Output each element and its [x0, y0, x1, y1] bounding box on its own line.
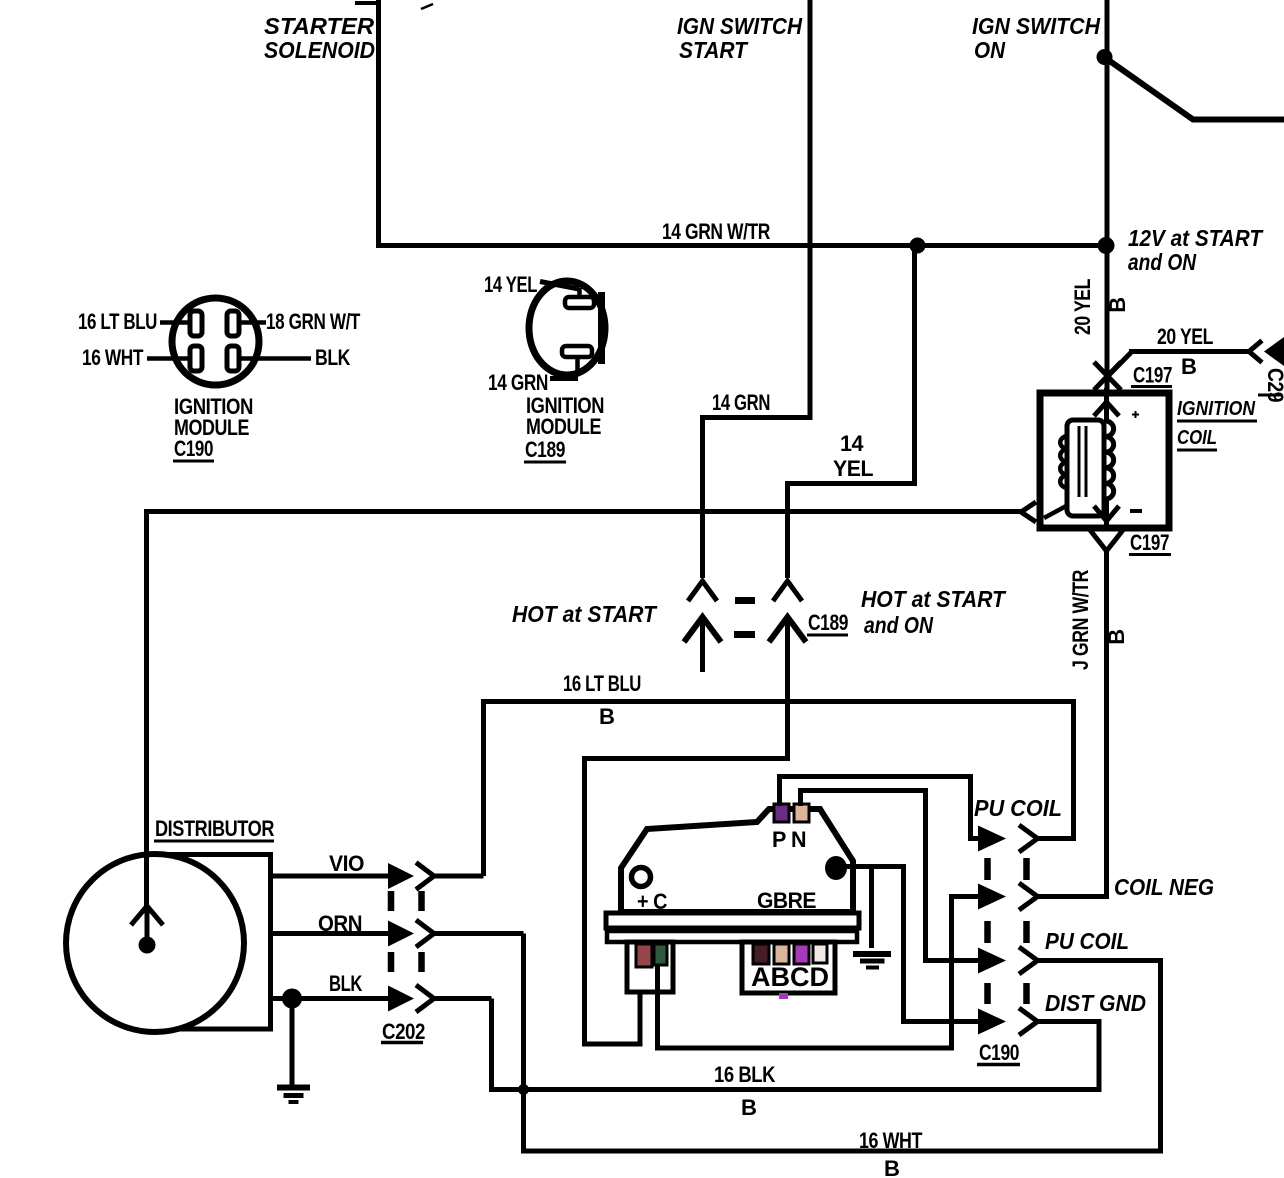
- svg-text:and ON: and ON: [864, 612, 933, 638]
- coil - mark: [1130, 509, 1142, 513]
- pin slot top-left: [190, 311, 202, 336]
- pin slot top: [565, 297, 594, 308]
- module pin A: [753, 944, 769, 964]
- wire: 16 BLK run pair4 to C202 ORN: [492, 999, 1100, 1090]
- connector C202 BLK filled arrow: [388, 986, 414, 1012]
- connector filled arrow at right edge: [1264, 337, 1284, 366]
- svg-text:HOT at START: HOT at START: [861, 586, 1007, 612]
- pin slot bottom-right: [227, 346, 239, 371]
- svg-text:C29: C29: [1263, 368, 1284, 402]
- svg-text:VIO: VIO: [329, 851, 364, 876]
- module pin B: [774, 944, 789, 964]
- node: ign switch on junction: [1097, 49, 1113, 65]
- svg-text:16 WHT: 16 WHT: [859, 1128, 923, 1153]
- module mounting hole: [632, 868, 651, 887]
- svg-text:B: B: [1181, 354, 1196, 379]
- wire: ORN exit: [434, 931, 524, 936]
- svg-text:C189: C189: [808, 610, 848, 635]
- node: junction at 14 YEL tap: [910, 238, 926, 254]
- svg-text:MODULE: MODULE: [526, 414, 601, 439]
- svg-text:C190: C190: [174, 436, 213, 461]
- connector C189 inline: right fork: [773, 581, 802, 601]
- svg-text:C189: C189: [525, 437, 565, 462]
- svg-text:B: B: [884, 1156, 899, 1178]
- wire: VIO from distributor: [268, 874, 388, 879]
- svg-text:YEL: YEL: [833, 456, 873, 481]
- wire: BLK exit: [434, 996, 492, 1001]
- svg-text:IGN SWITCH: IGN SWITCH: [972, 13, 1100, 39]
- svg-text:BLK: BLK: [315, 345, 350, 370]
- svg-text:SOLENOID: SOLENOID: [264, 37, 375, 63]
- connector C190 pair3 chevron: [1019, 947, 1038, 974]
- wire: module ground to DIST GND pair4: [836, 867, 978, 1022]
- module pin + (red): [636, 944, 652, 967]
- svg-text:20 YEL: 20 YEL: [1157, 324, 1213, 349]
- module body: [621, 809, 853, 912]
- svg-text:B: B: [1105, 297, 1130, 312]
- svg-text:14 GRN W/TR: 14 GRN W/TR: [662, 219, 770, 244]
- pin slot bottom: [562, 346, 592, 357]
- svg-text:PU COIL: PU COIL: [974, 795, 1062, 821]
- coil secondary body: [1067, 420, 1104, 516]
- coil arrow up: [1094, 402, 1119, 416]
- wire: 16 LT BLU run (VIO to PU COIL): [484, 702, 1074, 877]
- node: BLK ground junction: [282, 989, 302, 1009]
- node: crossing blob at ORN/16BLK: [518, 1084, 529, 1095]
- wire: ORN from distributor: [268, 931, 388, 936]
- connector C190 pair1 filled arrow: [978, 826, 1006, 852]
- wire: distributor ground drop: [290, 999, 295, 1086]
- wire: 16 WHT run pair3 to C202 BLK: [524, 934, 1161, 1152]
- pin lead BLK: [239, 356, 311, 361]
- pin lead 18 GRN W/T: [239, 320, 266, 325]
- connector C190 pair4 filled arrow: [978, 1009, 1006, 1035]
- svg-text:16 LT BLU: 16 LT BLU: [563, 671, 641, 696]
- svg-text:COIL: COIL: [1177, 427, 1217, 449]
- wire: ground branch: [869, 867, 874, 949]
- connector C190 pair1 chevron: [1019, 825, 1038, 852]
- svg-text:START: START: [679, 37, 749, 63]
- svg-text:ABCD: ABCD: [751, 962, 829, 992]
- wire: C189 down to module + terminal: [585, 616, 788, 1044]
- lead 14 YEL: [540, 282, 579, 290]
- connector C202 dashes: [391, 891, 422, 972]
- module ABCD shroud: [742, 942, 835, 993]
- connector C189 ignition module circle: [529, 281, 605, 379]
- connector chevron at right edge: [1249, 341, 1262, 363]
- ignition coil box: [1040, 393, 1169, 528]
- svg-text:C197: C197: [1130, 530, 1169, 555]
- wire: P pin to PU COIL pair1: [780, 777, 979, 839]
- module pin D: [813, 944, 827, 963]
- distributor shaft arrow: [131, 906, 163, 925]
- connector C190 pair4 chevron: [1019, 1008, 1038, 1035]
- module pin C (green): [654, 944, 667, 965]
- wire: 20 YEL branch to right edge: [1107, 352, 1249, 378]
- svg-text:16 LT BLU: 16 LT BLU: [78, 309, 157, 334]
- coil primary winding right: [1107, 388, 1114, 531]
- wire: stray tick: [421, 4, 433, 9]
- distributor circle: [66, 854, 244, 1032]
- coil + mark: [1132, 411, 1139, 418]
- connector C189 dash 1: [735, 597, 755, 604]
- svg-text:C190: C190: [979, 1040, 1019, 1065]
- svg-text:STARTER: STARTER: [264, 13, 374, 39]
- svg-text:20 YEL: 20 YEL: [1070, 279, 1095, 335]
- module plate bar 1: [606, 913, 859, 928]
- wire: 14 YEL run: [788, 245, 915, 578]
- module pin N: [794, 804, 809, 822]
- connector C202 VIO filled arrow: [388, 863, 414, 889]
- coil left entry chevron: [1021, 502, 1036, 522]
- svg-text:14 GRN: 14 GRN: [712, 390, 770, 415]
- svg-text:14: 14: [840, 431, 864, 456]
- connector C202 BLK chevron: [416, 985, 434, 1012]
- wire: starter solenoid feed vertical: [376, 0, 381, 247]
- svg-text:18 GRN W/T: 18 GRN W/T: [266, 309, 361, 334]
- node: junction at ign on line: [1098, 237, 1115, 254]
- module left pin shroud: [627, 942, 673, 992]
- svg-text:PU COIL: PU COIL: [1045, 928, 1129, 954]
- svg-text:C202: C202: [382, 1019, 425, 1044]
- coil core lines: [1079, 426, 1086, 497]
- connector C190 pair2 filled arrow: [978, 884, 1006, 910]
- svg-text:J GRN W/TR: J GRN W/TR: [1068, 570, 1093, 670]
- connector C190 dashes right column: [1023, 858, 1030, 1004]
- svg-text:and ON: and ON: [1128, 249, 1196, 275]
- svg-text:DISTRIBUTOR: DISTRIBUTOR: [155, 816, 274, 841]
- connector C202 ORN filled arrow: [388, 921, 414, 947]
- distributor housing rect: [148, 855, 271, 1030]
- connector C189 dash 2: [734, 631, 755, 638]
- node: distributor center dot: [139, 937, 156, 954]
- svg-text:B: B: [741, 1095, 756, 1120]
- svg-text:ORN: ORN: [318, 911, 362, 936]
- pin slot bottom-left: [190, 346, 202, 371]
- svg-text:P N: P N: [772, 827, 806, 852]
- connector C202 ORN chevron: [416, 920, 434, 947]
- connector C197 lower fork: [1090, 530, 1123, 551]
- wire: VIO exit to 16 LT BLU: [434, 874, 484, 879]
- wire: coil negative down to C190 pair2: [1038, 549, 1107, 897]
- coil internal diagonal: [1044, 505, 1068, 518]
- svg-text:ON: ON: [974, 37, 1005, 63]
- connector C190 pair3 filled arrow: [978, 948, 1006, 974]
- svg-text:14 YEL: 14 YEL: [484, 272, 537, 297]
- coil secondary scallops: [1060, 436, 1067, 488]
- pin slot top-right: [227, 311, 239, 336]
- wire: ign switch on vertical: [1105, 0, 1110, 420]
- pin lead 16 WHT: [147, 356, 190, 361]
- pin lead 16 LT BLU: [160, 320, 190, 325]
- wire: C pin to coil neg pair2: [658, 897, 979, 1049]
- pin stem top: [577, 288, 582, 297]
- module plate bar 2: [607, 931, 857, 942]
- connector C189 inline: left arrow: [684, 617, 721, 642]
- svg-text:C197: C197: [1133, 363, 1172, 388]
- connector C190 dashes left column: [984, 858, 991, 1004]
- wire: 14 GRN W/TR horizontal: [376, 243, 1107, 248]
- svg-text:+ C: + C: [637, 889, 668, 914]
- wire: BLK from distributor: [268, 996, 388, 1001]
- svg-text:12V at START: 12V at START: [1128, 225, 1264, 251]
- wire: ign switch start vertical + 14 GRN run to C189: [703, 0, 811, 578]
- wire: diagonal feed to right edge: [1104, 57, 1284, 120]
- coil arrow down: [1094, 506, 1119, 521]
- ground symbol module: [853, 951, 891, 957]
- pin stem bottom: [575, 357, 580, 376]
- wire: main horizontal to coil and down to distributor: [147, 512, 1022, 908]
- module pin C2: [794, 944, 809, 964]
- connector C197 upper X: [1094, 362, 1121, 390]
- svg-text:HOT at START: HOT at START: [512, 601, 658, 627]
- svg-text:BLK: BLK: [329, 971, 362, 996]
- svg-text:16 WHT: 16 WHT: [82, 345, 144, 370]
- lead 14 GRN: [550, 376, 578, 381]
- connector C189 inline: right arrow: [769, 617, 806, 642]
- connector C202 VIO chevron: [416, 863, 434, 890]
- svg-text:B: B: [599, 704, 614, 729]
- svg-text:IGNITION: IGNITION: [1177, 398, 1255, 420]
- module pin P: [774, 804, 789, 822]
- svg-text:14 GRN: 14 GRN: [488, 370, 548, 395]
- wire: N pin to pair3: [801, 791, 979, 961]
- svg-text:16 BLK: 16 BLK: [714, 1062, 776, 1087]
- svg-text:DIST GND: DIST GND: [1045, 990, 1146, 1016]
- module grommet: [825, 856, 847, 880]
- svg-text:IGN SWITCH: IGN SWITCH: [677, 13, 802, 39]
- svg-text:COIL NEG: COIL NEG: [1114, 874, 1214, 900]
- connector C189 inline: left fork: [688, 581, 717, 601]
- wire: small tick top: [355, 1, 378, 5]
- connector C190 pair2 chevron: [1019, 883, 1038, 910]
- ground symbol distributor: [277, 1085, 310, 1091]
- svg-text:GBRE: GBRE: [757, 888, 816, 913]
- module pin stub purple: [779, 993, 788, 999]
- connector C190 ignition module circle: [147, 298, 311, 385]
